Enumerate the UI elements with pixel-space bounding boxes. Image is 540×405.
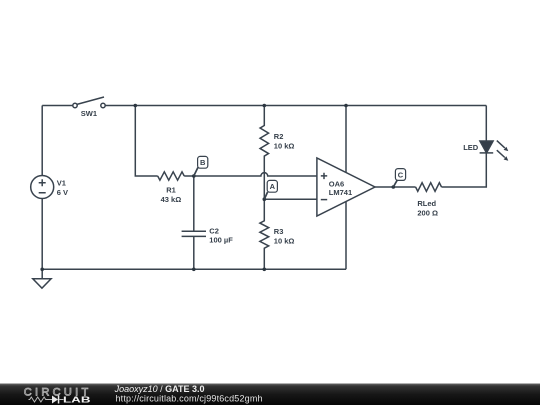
junction node C xyxy=(392,185,396,189)
wire C2 to bottom rail xyxy=(193,236,195,269)
label R2 value xyxy=(274,132,295,151)
svg-text:R3: R3 xyxy=(274,227,284,236)
junction node A xyxy=(263,197,267,201)
LED emission arrow head 2 xyxy=(504,156,509,160)
svg-text:http://circuitlab.com/cj99t6cd: http://circuitlab.com/cj99t6cd52gmh xyxy=(116,394,263,404)
op-amp - input symbol xyxy=(321,199,327,201)
svg-text:R1: R1 xyxy=(166,185,176,194)
capacitor C2 xyxy=(182,231,206,236)
resistor RLed xyxy=(416,183,442,192)
switch SW1 xyxy=(73,97,105,108)
wire op-amp output xyxy=(375,186,416,188)
node A flag xyxy=(264,180,277,199)
CircuitLab logo wire xyxy=(59,399,63,401)
op-amp + input symbol xyxy=(321,173,327,179)
wire bottom rail xyxy=(42,268,346,270)
wire A to op-amp - input xyxy=(264,198,317,200)
label R3 value xyxy=(274,227,295,246)
junction top rail / R1 branch xyxy=(134,104,138,108)
label RLed value xyxy=(417,199,438,218)
svg-text:100 µF: 100 µF xyxy=(209,236,233,245)
ground xyxy=(33,269,51,288)
resistor R1 xyxy=(158,172,185,180)
wire op-amp power vertical xyxy=(345,106,347,270)
wire B to C2 xyxy=(193,176,195,231)
LED D1 xyxy=(480,106,505,158)
svg-text:10 kΩ: 10 kΩ xyxy=(274,142,295,151)
svg-text:10 kΩ: 10 kΩ xyxy=(274,236,295,245)
CircuitLab logo diode xyxy=(52,396,59,404)
svg-text:C: C xyxy=(398,170,404,179)
junction bottom rail / C2 xyxy=(192,268,196,272)
junction top rail / op-amp supply xyxy=(344,104,348,108)
wire left vertical top (top rail to V1) xyxy=(41,106,43,176)
svg-text:RLed: RLed xyxy=(417,199,436,208)
svg-text:SW1: SW1 xyxy=(81,109,97,118)
CircuitLab logo resistor zigzag xyxy=(29,397,53,402)
svg-text:A: A xyxy=(270,182,276,191)
wire V1 to bottom rail xyxy=(41,199,43,270)
op-amp U1 OA6 body xyxy=(317,158,375,216)
svg-text:V1: V1 xyxy=(57,179,66,188)
wire RLed to right vertical xyxy=(442,153,487,187)
svg-text:LED: LED xyxy=(463,143,479,152)
node C flag xyxy=(393,169,405,187)
svg-text:6 V: 6 V xyxy=(57,188,68,197)
node B flag xyxy=(194,156,208,176)
junction bottom rail / R3 xyxy=(263,268,267,272)
wire R1 to op-amp + input (with hop over R2 wire) xyxy=(184,173,317,176)
footer bar xyxy=(0,384,540,405)
junction bottom rail / ground xyxy=(40,268,44,272)
wire top rail main segment xyxy=(105,105,486,107)
svg-text:R2: R2 xyxy=(274,132,284,141)
label V1 value xyxy=(57,179,68,198)
label C2 value xyxy=(209,227,233,245)
svg-text:LM741: LM741 xyxy=(329,188,352,197)
svg-text:B: B xyxy=(200,158,206,167)
svg-text:43 kΩ: 43 kΩ xyxy=(161,195,182,204)
label R1 value xyxy=(161,185,182,204)
wire top rail left segment xyxy=(42,105,73,107)
junction top rail / R2 xyxy=(263,104,267,108)
voltage source V1 xyxy=(31,176,54,199)
label OA6 LM741 xyxy=(329,179,352,197)
junction node B xyxy=(192,174,196,178)
LED emission arrow head 1 xyxy=(504,147,509,151)
svg-text:LAB: LAB xyxy=(63,395,91,405)
svg-text:C2: C2 xyxy=(209,227,219,236)
svg-text:200 Ω: 200 Ω xyxy=(417,209,438,218)
wire R1 branch vertical xyxy=(135,106,157,177)
resistor R2 with leads xyxy=(260,106,269,200)
resistor R3 with leads xyxy=(260,199,269,269)
